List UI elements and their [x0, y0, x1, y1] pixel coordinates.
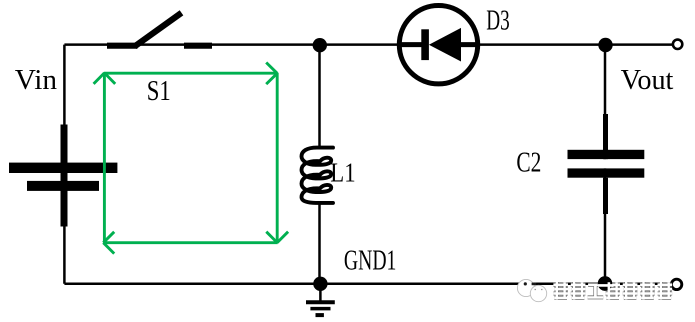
capacitor C2 [568, 114, 645, 214]
svg-text:L1: L1 [330, 158, 355, 188]
svg-text:GND1: GND1 [344, 246, 397, 277]
junction node bottom of L1 [313, 277, 327, 291]
diode D3 [397, 6, 480, 84]
svg-text:D3: D3 [486, 5, 510, 36]
wire bottom rail [64, 283, 672, 286]
inductor L1 [302, 148, 334, 203]
wire top rail [64, 43, 672, 46]
ground GND1 [306, 284, 335, 315]
wire inductor branch upper [318, 45, 321, 149]
svg-text:Vin: Vin [15, 65, 57, 96]
junction node top of C2 [598, 38, 612, 52]
svg-text:S1: S1 [147, 76, 171, 107]
battery V1 (Vin source) [9, 125, 117, 227]
junction node bottom of C2 [598, 276, 612, 290]
junction node top of L1 [313, 38, 327, 52]
junction node bottom of C2 (over watermark) [598, 276, 612, 290]
switch S1 [107, 13, 212, 47]
watermark logo [517, 279, 546, 301]
svg-text:Vout: Vout [621, 65, 674, 96]
wire capacitor branch [604, 45, 607, 284]
svg-text:C2: C2 [516, 148, 541, 179]
watermark text 硬件工程师看海 [553, 282, 672, 299]
terminal Vout top [673, 40, 682, 49]
wire inductor branch lower [318, 203, 321, 284]
wire left rail [63, 45, 66, 284]
terminal Vout bottom [671, 279, 681, 289]
green commutation loop arrows [94, 63, 289, 254]
